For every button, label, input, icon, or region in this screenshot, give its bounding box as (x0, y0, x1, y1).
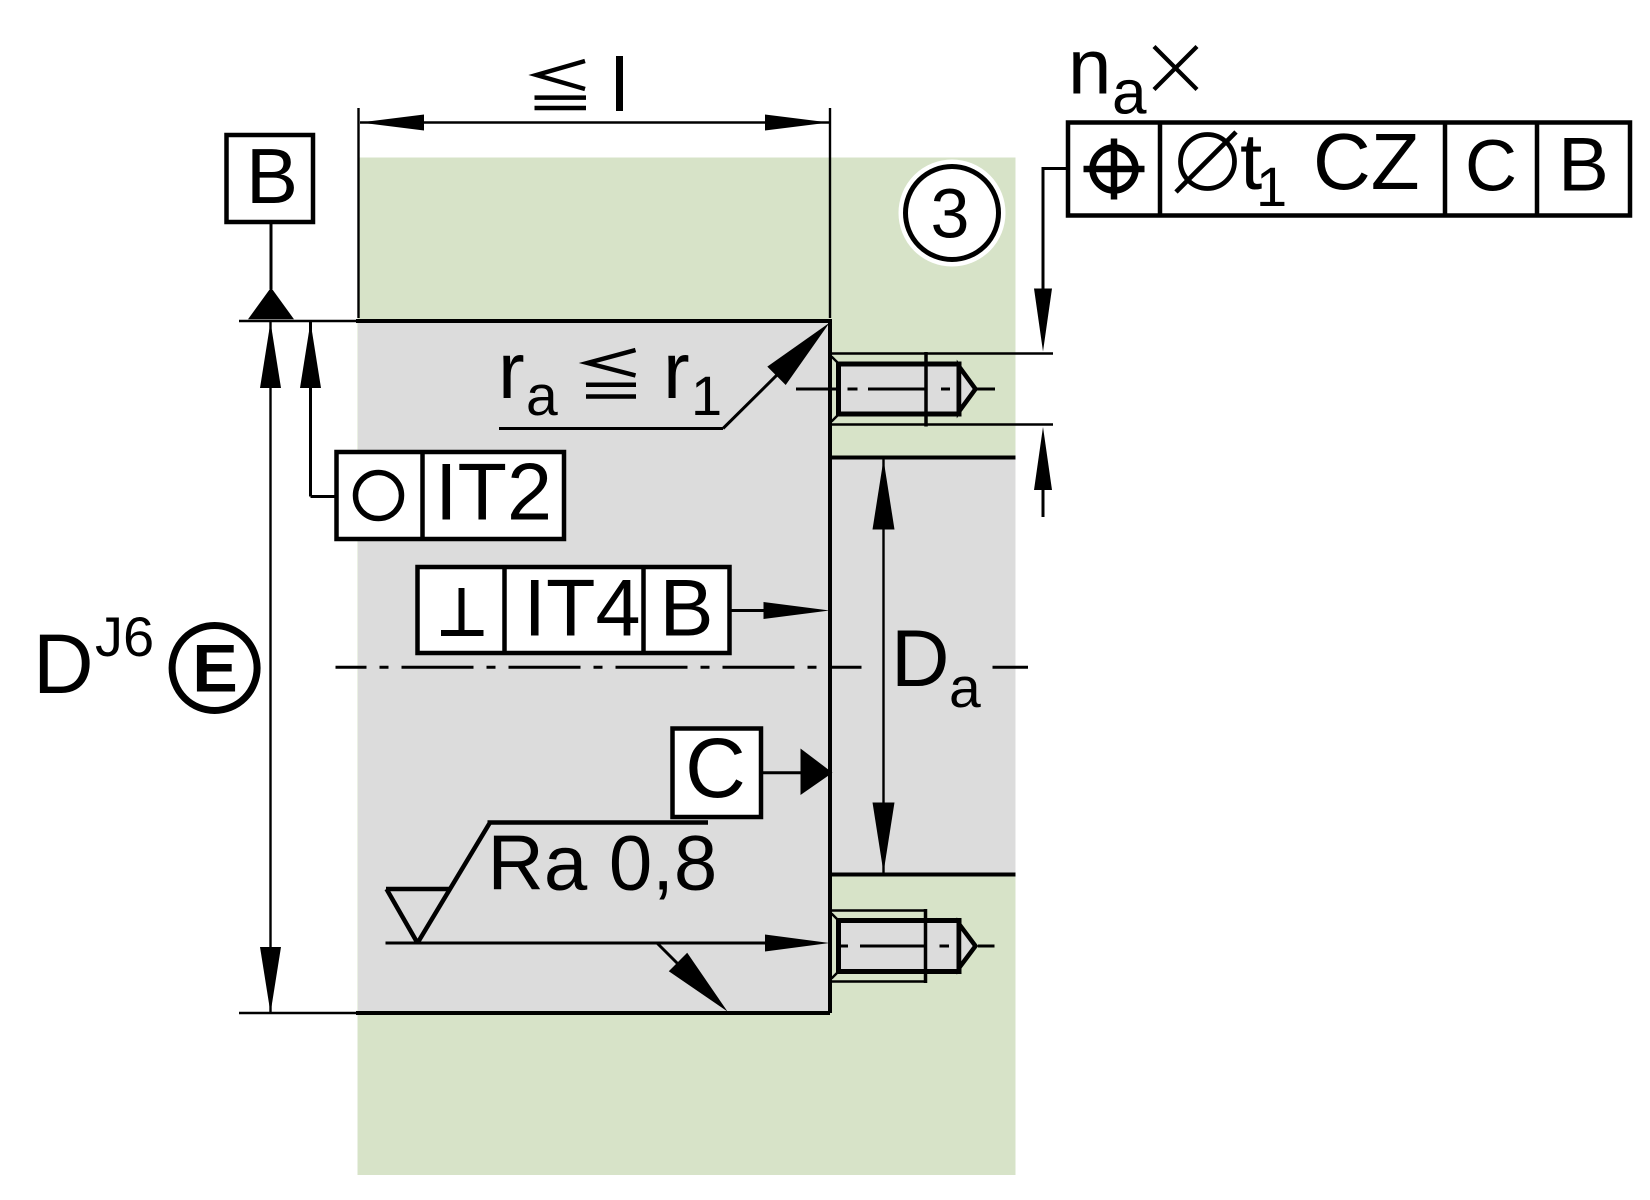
set screw 2 point (959, 924, 976, 968)
shaft shoulder section (gray) (830, 458, 1016, 875)
set screw 1 centerline (796, 388, 995, 391)
perpendicularity leader (730, 609, 769, 612)
datum C triangle (801, 749, 833, 796)
roundness symbol (356, 473, 402, 519)
diameter D arrow top (260, 322, 281, 388)
note r_a leader underline (499, 427, 723, 430)
diameter D arrow bottom (260, 947, 281, 1013)
position symbol (1093, 148, 1136, 191)
surface finish baseline leader (386, 942, 769, 945)
shoulder bottom edge (830, 873, 1016, 877)
housing section (green) (358, 158, 1016, 1176)
length dimension arrow right (765, 115, 829, 131)
perpendicularity symbol (441, 630, 484, 636)
svg-text:C: C (1465, 127, 1517, 207)
datum B triangle (248, 288, 294, 320)
length dimension line (360, 121, 829, 123)
main centerline (336, 666, 862, 669)
svg-text:D: D (33, 617, 94, 711)
svg-text:B: B (1558, 123, 1609, 208)
set screw 2 body (839, 921, 960, 972)
shaft top edge (239, 320, 360, 323)
datum C leader (761, 771, 802, 774)
set screw 2 hole chamfer bottom (832, 971, 840, 979)
note r_a leader arrow (767, 323, 829, 385)
label less-equal l (535, 56, 620, 111)
svg-text:r: r (498, 326, 525, 415)
datum B leader (270, 222, 273, 289)
position tolerance frame (1068, 123, 1630, 216)
set screw 1 hole end line (924, 352, 928, 427)
shaft right edge (828, 319, 832, 1013)
shoulder diameter dimension line (882, 460, 884, 873)
svg-text:Ra 0,8: Ra 0,8 (488, 819, 718, 907)
position tolerance leader (1043, 167, 1068, 170)
length dimension extension line right (829, 108, 831, 318)
set screw 1 hole chamfer top (832, 357, 840, 365)
perpendicularity tolerance frame (418, 567, 730, 653)
svg-text:D: D (891, 614, 950, 704)
svg-text:IT2: IT2 (435, 448, 552, 538)
datum C box (673, 729, 762, 818)
set screw 2 centerline (836, 945, 995, 948)
svg-text:1: 1 (691, 364, 722, 427)
set screw 1 body (839, 364, 960, 414)
set screw 1 hole chamfer bottom (832, 414, 840, 422)
svg-text:a: a (1112, 59, 1147, 128)
svg-text:a: a (949, 656, 981, 720)
svg-text:B: B (246, 132, 298, 220)
diameter symbol (1181, 135, 1235, 189)
set screw 2 hole end line (924, 909, 928, 983)
shaft bottom edge (239, 1012, 360, 1015)
length dimension extension line left (357, 108, 359, 318)
set screw 2 hole chamfer top (832, 914, 840, 922)
set screw 2 hole bottom edge (830, 980, 926, 983)
svg-text:C: C (685, 721, 746, 815)
svg-text:r: r (663, 326, 690, 415)
roundness leader arrow (300, 322, 321, 388)
svg-text:3: 3 (931, 175, 970, 253)
svg-text:1: 1 (1256, 155, 1287, 218)
diameter D dimension line (269, 322, 271, 1013)
shaft block section (gray) (358, 321, 830, 1013)
length dimension arrow left (360, 115, 424, 131)
datum B box (227, 135, 314, 222)
svg-text:J6: J6 (95, 605, 154, 668)
balloon 3 (906, 167, 999, 260)
set screw 1 point (959, 367, 976, 412)
svg-text:a: a (526, 364, 558, 428)
svg-text:CZ: CZ (1313, 117, 1420, 206)
svg-text:IT4: IT4 (523, 564, 640, 654)
set screw 2 hole top edge (830, 909, 926, 912)
surface finish bottom leader (657, 943, 690, 976)
svg-text:n: n (1068, 23, 1111, 111)
shoulder top edge (830, 456, 1016, 460)
svg-text:E: E (192, 631, 237, 707)
set screw 1 hole top edge (830, 352, 1053, 355)
roundness tolerance frame (337, 452, 565, 539)
envelope symbol circle E (172, 626, 257, 711)
svg-text:B: B (659, 564, 713, 654)
set screw 1 hole bottom edge (830, 423, 1053, 426)
surface finish symbol (386, 823, 708, 944)
